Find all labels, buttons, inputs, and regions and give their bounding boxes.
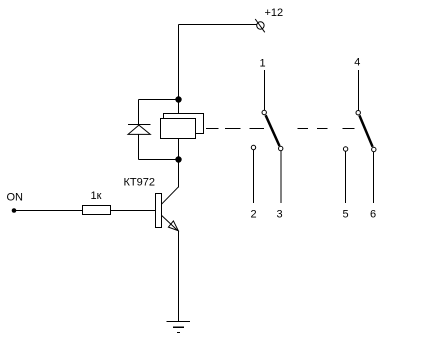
dashed mechanical link segment 2 bbox=[225, 128, 241, 130]
wire top rail from collector column to +12 terminal bbox=[179, 24, 257, 26]
transistor VT1 emitter arrow (open) bbox=[168, 221, 178, 231]
svg-text:3: 3 bbox=[277, 209, 283, 221]
node B junction dot (collector column / diode bottom) bbox=[175, 156, 181, 162]
wire contact pin 3 vertical bbox=[280, 151, 282, 203]
switch S2 pivot circle (pin 4) bbox=[356, 111, 360, 115]
switch S1 armature (thick movable contact) bbox=[266, 115, 280, 146]
power terminal +12 slash bbox=[255, 19, 265, 32]
ON input terminal dot bbox=[12, 208, 17, 213]
svg-text:ON: ON bbox=[7, 191, 24, 203]
wire contact pin 2 vertical bbox=[253, 150, 255, 203]
ground symbol bar 2 bbox=[173, 326, 184, 328]
dashed mechanical link segment 4 bbox=[297, 128, 308, 130]
wire contact pin 4 vertical bbox=[358, 70, 360, 111]
ground symbol bar 1 bbox=[167, 320, 190, 322]
wire diode top horizontal to node A bbox=[139, 99, 179, 101]
diode VD1 cathode bar bbox=[128, 124, 150, 126]
switch S1 open contact circle (pin 2) bbox=[251, 145, 255, 149]
svg-text:1к: 1к bbox=[91, 190, 102, 202]
dashed mechanical link segment 5 bbox=[317, 128, 328, 130]
wire contact pin 6 vertical bbox=[373, 152, 375, 203]
svg-text:КТ972: КТ972 bbox=[124, 177, 155, 189]
transistor VT1 collector lead bbox=[161, 187, 178, 205]
wire resistor R1 to transistor base bbox=[110, 210, 155, 212]
svg-text:+12: +12 bbox=[265, 7, 284, 19]
dashed mechanical link segment 3 bbox=[250, 128, 265, 130]
relay coil K1 front rectangle bbox=[161, 119, 196, 139]
resistor R1 body bbox=[83, 206, 111, 215]
wire emitter vertical down to ground bbox=[178, 231, 180, 322]
wire diode bottom vertical bbox=[138, 134, 140, 159]
ground symbol bar 3 bbox=[177, 332, 180, 334]
svg-text:6: 6 bbox=[370, 209, 376, 221]
switch S1 pivot circle (pin 1) bbox=[262, 110, 266, 114]
wire diode top vertical down to cathode bbox=[138, 100, 140, 125]
transistor VT1 emitter lead bbox=[161, 215, 177, 230]
switch S2 open contact circle (pin 5) bbox=[343, 147, 347, 151]
diode VD1 triangle (anode below, pointing up) bbox=[128, 125, 150, 134]
dashed mechanical link segment 1 bbox=[206, 128, 219, 130]
wire main vertical: top rail down to relay coil top bbox=[178, 25, 180, 114]
dashed mechanical link segment 6 bbox=[343, 128, 355, 130]
switch S2 throw circle (pin 6) bbox=[372, 147, 376, 151]
transistor VT1 base bar bbox=[156, 194, 162, 228]
wire diode bottom horizontal to node B bbox=[139, 159, 179, 161]
switch S1 throw circle (pin 3) bbox=[279, 146, 283, 150]
wire contact pin 1 vertical bbox=[264, 70, 266, 110]
svg-text:4: 4 bbox=[354, 57, 360, 69]
svg-text:2: 2 bbox=[251, 209, 257, 221]
power terminal +12 circle bbox=[257, 22, 264, 29]
switch S2 armature (thick movable contact) bbox=[359, 115, 372, 146]
wire ON terminal to resistor R1 bbox=[14, 210, 83, 212]
relay coil K1 back rectangle bbox=[164, 114, 204, 134]
wire contact pin 5 vertical bbox=[345, 151, 347, 203]
wire relay coil bottom to transistor collector bend bbox=[178, 139, 180, 187]
svg-text:1: 1 bbox=[260, 58, 266, 70]
node A junction dot (collector column / diode top) bbox=[175, 96, 181, 102]
svg-text:5: 5 bbox=[343, 209, 349, 221]
